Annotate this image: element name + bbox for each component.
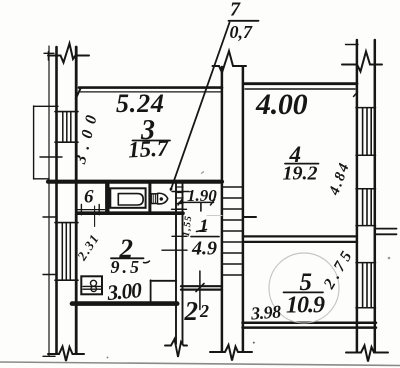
window W3 glazing lines: [362, 108, 364, 155]
stove inner lines: [83, 285, 101, 287]
window W5 room5 right wall dividers: [356, 262, 376, 264]
bathtub inner basin: [118, 194, 143, 205]
kitchen top wall: [77, 211, 183, 215]
divider wall room4/room5 line1: [243, 235, 357, 237]
left bracket top: [34, 105, 58, 107]
fraction bar room 1: [191, 236, 219, 238]
fraction bar room 2: [111, 257, 144, 259]
toilet tank: [151, 194, 157, 204]
window W4 glazing lines: [362, 189, 364, 225]
room3 top wall thick line: [79, 86, 222, 89]
corridor wall tick y209: [172, 208, 187, 210]
faint circle around room5 label: [269, 253, 339, 323]
tick top of chain: [44, 52, 54, 54]
svg-text:5.24: 5.24: [116, 89, 165, 118]
bath wall A: [105, 184, 109, 212]
svg-text:15.7: 15.7: [127, 135, 170, 162]
corridor vertical dim serif: [196, 284, 204, 292]
svg-text:2: 2: [184, 296, 199, 326]
svg-text:2: 2: [199, 301, 209, 321]
divider wall extension beyond right wall: [375, 228, 397, 230]
scan artifact dots: [201, 172, 204, 174]
window W1 glazing lines: [62, 112, 64, 142]
window W5 glazing lines: [362, 263, 364, 307]
room 2 swash: [144, 261, 150, 263]
break symbol left wall bottom: [48, 347, 84, 362]
fraction bar label 7: [229, 20, 259, 22]
svg-text:19.2: 19.2: [283, 163, 318, 185]
window W2 kitchen left wall bottom divider: [55, 279, 78, 281]
corridor bottom wall line1: [181, 285, 222, 287]
left bracket vertical: [33, 106, 35, 179]
kitchen bottom wall: [72, 301, 177, 306]
window W1 room3 left wall bottom divider: [55, 141, 78, 143]
divider wall room4/room5 line2: [243, 241, 357, 243]
small tick below 1.90 line: [200, 203, 202, 211]
corridor wall tick y191: [172, 191, 189, 193]
corridor west wall right line: [182, 181, 184, 344]
dim serif right: [211, 200, 215, 206]
corridor west wall left line: [175, 181, 177, 344]
svg-text:4.9: 4.9: [191, 238, 217, 260]
corridor bottom wall line2: [181, 289, 222, 291]
fraction bar room 5: [284, 291, 324, 293]
break symbol corridor wall bottom: [165, 339, 187, 357]
room3 top-left corner chamfer: [76, 89, 81, 99]
break symbol central wall top: [213, 51, 247, 73]
tick right wall top: [346, 44, 359, 46]
central wall hatching: [222, 187, 243, 275]
svg-text:10.9: 10.9: [286, 293, 325, 319]
dim serif left: [178, 200, 182, 206]
break symbol left wall top: [48, 44, 89, 63]
scan edge line bottom: [0, 362, 400, 366]
right outer wall left line: [356, 40, 359, 352]
bath wall B: [148, 184, 151, 212]
left outer wall inner line: [75, 47, 78, 353]
fraction bar room 3: [133, 140, 171, 142]
svg-text:4.00: 4.00: [255, 88, 308, 121]
dim line under 1.90: [179, 201, 214, 203]
leader line to room 7: [171, 23, 230, 191]
svg-text:9.5: 9.5: [111, 257, 143, 277]
tick at y274: [43, 274, 55, 276]
kitchen corner notch horizontal: [151, 280, 177, 282]
window W2 kitchen left wall top divider: [55, 222, 78, 224]
kitchen corner notch vertical: [150, 280, 152, 302]
svg-text:6: 6: [84, 187, 94, 208]
room5 bottom wall line2: [243, 326, 377, 329]
corridor wall tick y236: [172, 235, 187, 237]
svg-text:7: 7: [230, 0, 241, 21]
room6 dim ticks: [80, 205, 82, 215]
toilet bowl dot: [160, 197, 163, 200]
break symbol right wall bottom: [346, 346, 388, 362]
toilet bowl: [158, 193, 168, 204]
corridor vertical dim line: [199, 271, 201, 310]
left bracket bottom: [34, 178, 49, 180]
fraction bar room 4: [285, 163, 319, 165]
bathtub outer rect: [110, 188, 145, 208]
svg-text:0,7: 0,7: [230, 22, 254, 42]
svg-text:3.98: 3.98: [249, 301, 281, 323]
divider wall room3/bath block: [48, 180, 222, 184]
svg-text:3.00: 3.00: [105, 278, 143, 305]
corridor west wall duct hatching: [176, 187, 183, 209]
tick at y217: [43, 216, 57, 218]
window W4 room4 right wall dividers: [356, 188, 376, 190]
break symbol central wall bottom: [210, 345, 252, 361]
stove burners: [91, 280, 97, 286]
break symbol right wall top: [342, 52, 382, 72]
tick at y157 window bottom: [40, 156, 62, 158]
central wall tick into room4: [243, 216, 256, 218]
left outer wall outer line: [55, 47, 58, 353]
window W3 room4 right wall dividers: [356, 107, 376, 109]
room4 top wall thin line (4.00 dim line): [245, 88, 355, 90]
break symbol left wall top end serif: [48, 52, 50, 61]
room4 top wall thick line: [245, 82, 358, 85]
room5 bottom wall line1: [243, 321, 377, 324]
window W2 glazing lines: [61, 223, 63, 280]
room6 dim line: [76, 209, 105, 211]
stove square: [81, 276, 102, 294]
left dimension chain line: [48, 46, 50, 356]
svg-text:1: 1: [199, 216, 209, 237]
bathtub drain end line: [117, 194, 119, 205]
tick chain bottom end: [43, 355, 55, 357]
central wall right line: [242, 67, 245, 351]
corridor wall tick y250: [162, 249, 187, 251]
room3 top wall thin line (5.24 dim line): [80, 91, 221, 93]
faint dashes near corridor: [207, 215, 222, 217]
room label 1 serif: [197, 230, 207, 232]
svg-text:1.90: 1.90: [187, 186, 217, 205]
window W1 room3 left wall top divider: [55, 111, 78, 113]
central wall left line: [221, 67, 224, 351]
room4 dim serif right: [354, 92, 358, 97]
right outer wall right line: [374, 40, 377, 352]
